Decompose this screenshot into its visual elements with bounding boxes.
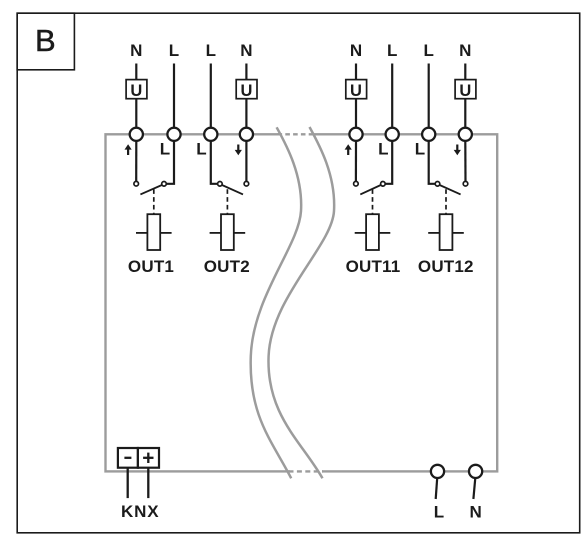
break gap in device top edge xyxy=(279,131,313,138)
terminal N OUT1 xyxy=(130,128,143,141)
actuation link OUT11 xyxy=(372,189,374,214)
load rect OUT1 xyxy=(147,214,160,250)
wire L terminal to switch pole OUT12 xyxy=(429,141,436,184)
dashed continuation of bottom edge xyxy=(289,470,324,472)
terminal L OUT11 xyxy=(386,128,399,141)
variant marker B box xyxy=(17,13,74,70)
svg-text:OUT1: OUT1 xyxy=(128,257,174,276)
switch pole contact OUT2 xyxy=(218,182,223,187)
voltage monitor U (OUT12) xyxy=(455,80,476,101)
load right lead OUT1 xyxy=(160,232,171,234)
wire N terminal to contact OUT12 xyxy=(464,141,466,182)
terminal L OUT1 xyxy=(167,128,180,141)
wire L feed OUT2 xyxy=(210,64,212,129)
contact OUT2 xyxy=(244,181,249,186)
voltage monitor U (OUT1) xyxy=(126,80,147,101)
switch pole contact OUT1 xyxy=(162,182,167,187)
wire L terminal to switch pole OUT2 xyxy=(211,141,218,184)
svg-text:OUT12: OUT12 xyxy=(418,257,474,276)
terminal L OUT12 xyxy=(422,128,435,141)
wire L feed OUT12 xyxy=(428,64,430,129)
wire L feed OUT11 xyxy=(391,64,393,129)
svg-text:L: L xyxy=(387,41,397,60)
load left lead OUT2 xyxy=(210,232,221,234)
wire N feed OUT1 xyxy=(135,64,137,129)
svg-text:N: N xyxy=(470,503,482,522)
break squiggle right curve xyxy=(268,127,334,478)
svg-text:U: U xyxy=(240,82,252,100)
contact OUT1 xyxy=(134,181,139,186)
voltage monitor U (OUT11) xyxy=(346,80,367,101)
switch arm OUT1 xyxy=(140,185,162,194)
terminal L supply xyxy=(431,465,444,478)
load right lead OUT2 xyxy=(234,232,245,234)
up arrow OUT1 xyxy=(125,144,132,155)
wire N supply xyxy=(473,478,475,499)
wire N feed OUT12 xyxy=(464,64,466,129)
wire N feed OUT2 xyxy=(245,64,247,129)
terminal N OUT12 xyxy=(459,128,472,141)
wire N terminal to contact OUT11 xyxy=(355,141,357,182)
wire L terminal to switch pole OUT1 xyxy=(166,141,174,184)
KNX bus terminal block xyxy=(118,448,159,468)
actuator device outline (gray box) xyxy=(106,134,498,471)
KNX minus pin xyxy=(124,457,131,459)
terminal N OUT2 xyxy=(240,128,253,141)
switch pole contact OUT11 xyxy=(381,182,386,187)
svg-text:KNX: KNX xyxy=(121,502,159,521)
down arrow OUT12 xyxy=(454,145,461,156)
wire KNX plus xyxy=(147,468,149,498)
svg-text:N: N xyxy=(240,41,252,60)
wire N feed OUT11 xyxy=(355,64,357,129)
svg-text:L: L xyxy=(415,139,425,158)
svg-text:L: L xyxy=(196,139,206,158)
svg-text:L: L xyxy=(206,41,216,60)
svg-text:N: N xyxy=(459,41,471,60)
contact OUT11 xyxy=(354,181,359,186)
actuation link OUT2 xyxy=(226,189,228,214)
load rect OUT12 xyxy=(440,214,453,250)
load left lead OUT1 xyxy=(136,232,147,234)
switch arm OUT2 xyxy=(222,185,243,194)
svg-text:N: N xyxy=(350,41,362,60)
wire L supply xyxy=(436,478,438,499)
break gap in device bottom edge xyxy=(290,468,322,475)
load rect OUT2 xyxy=(221,214,234,250)
svg-text:L: L xyxy=(169,41,179,60)
contact OUT12 xyxy=(463,181,468,186)
load right lead OUT12 xyxy=(452,232,463,234)
KNX plus pin xyxy=(143,453,153,463)
wire KNX minus xyxy=(127,468,129,498)
switch arm OUT11 xyxy=(360,185,381,194)
svg-text:L: L xyxy=(424,41,434,60)
down arrow OUT2 xyxy=(235,145,242,156)
terminal N OUT11 xyxy=(349,128,362,141)
wire N terminal to contact OUT1 xyxy=(135,141,137,182)
svg-text:OUT2: OUT2 xyxy=(204,257,250,276)
wire L terminal to switch pole OUT11 xyxy=(385,141,392,184)
dashed continuation of top edge xyxy=(278,133,313,135)
svg-text:U: U xyxy=(130,82,142,100)
load left lead OUT11 xyxy=(355,232,366,234)
load right lead OUT11 xyxy=(379,232,390,234)
svg-text:L: L xyxy=(160,139,170,158)
terminal N supply xyxy=(469,465,482,478)
terminal L OUT2 xyxy=(204,128,217,141)
switch pole contact OUT12 xyxy=(435,182,440,187)
switch arm OUT12 xyxy=(440,185,461,194)
svg-text:L: L xyxy=(378,139,388,158)
actuation link OUT12 xyxy=(445,189,447,214)
svg-text:B: B xyxy=(35,23,56,58)
load left lead OUT12 xyxy=(428,232,439,234)
up arrow OUT11 xyxy=(345,144,352,155)
svg-text:L: L xyxy=(434,503,444,522)
wire N terminal to contact OUT2 xyxy=(245,141,247,182)
actuation link OUT1 xyxy=(153,189,155,214)
voltage monitor U (OUT2) xyxy=(236,80,257,101)
svg-text:OUT11: OUT11 xyxy=(346,257,401,276)
svg-text:U: U xyxy=(350,82,362,100)
wire L feed OUT1 xyxy=(173,64,175,129)
load rect OUT11 xyxy=(366,214,379,250)
break squiggle left curve xyxy=(251,127,302,478)
svg-text:U: U xyxy=(459,82,471,100)
svg-text:N: N xyxy=(130,41,142,60)
